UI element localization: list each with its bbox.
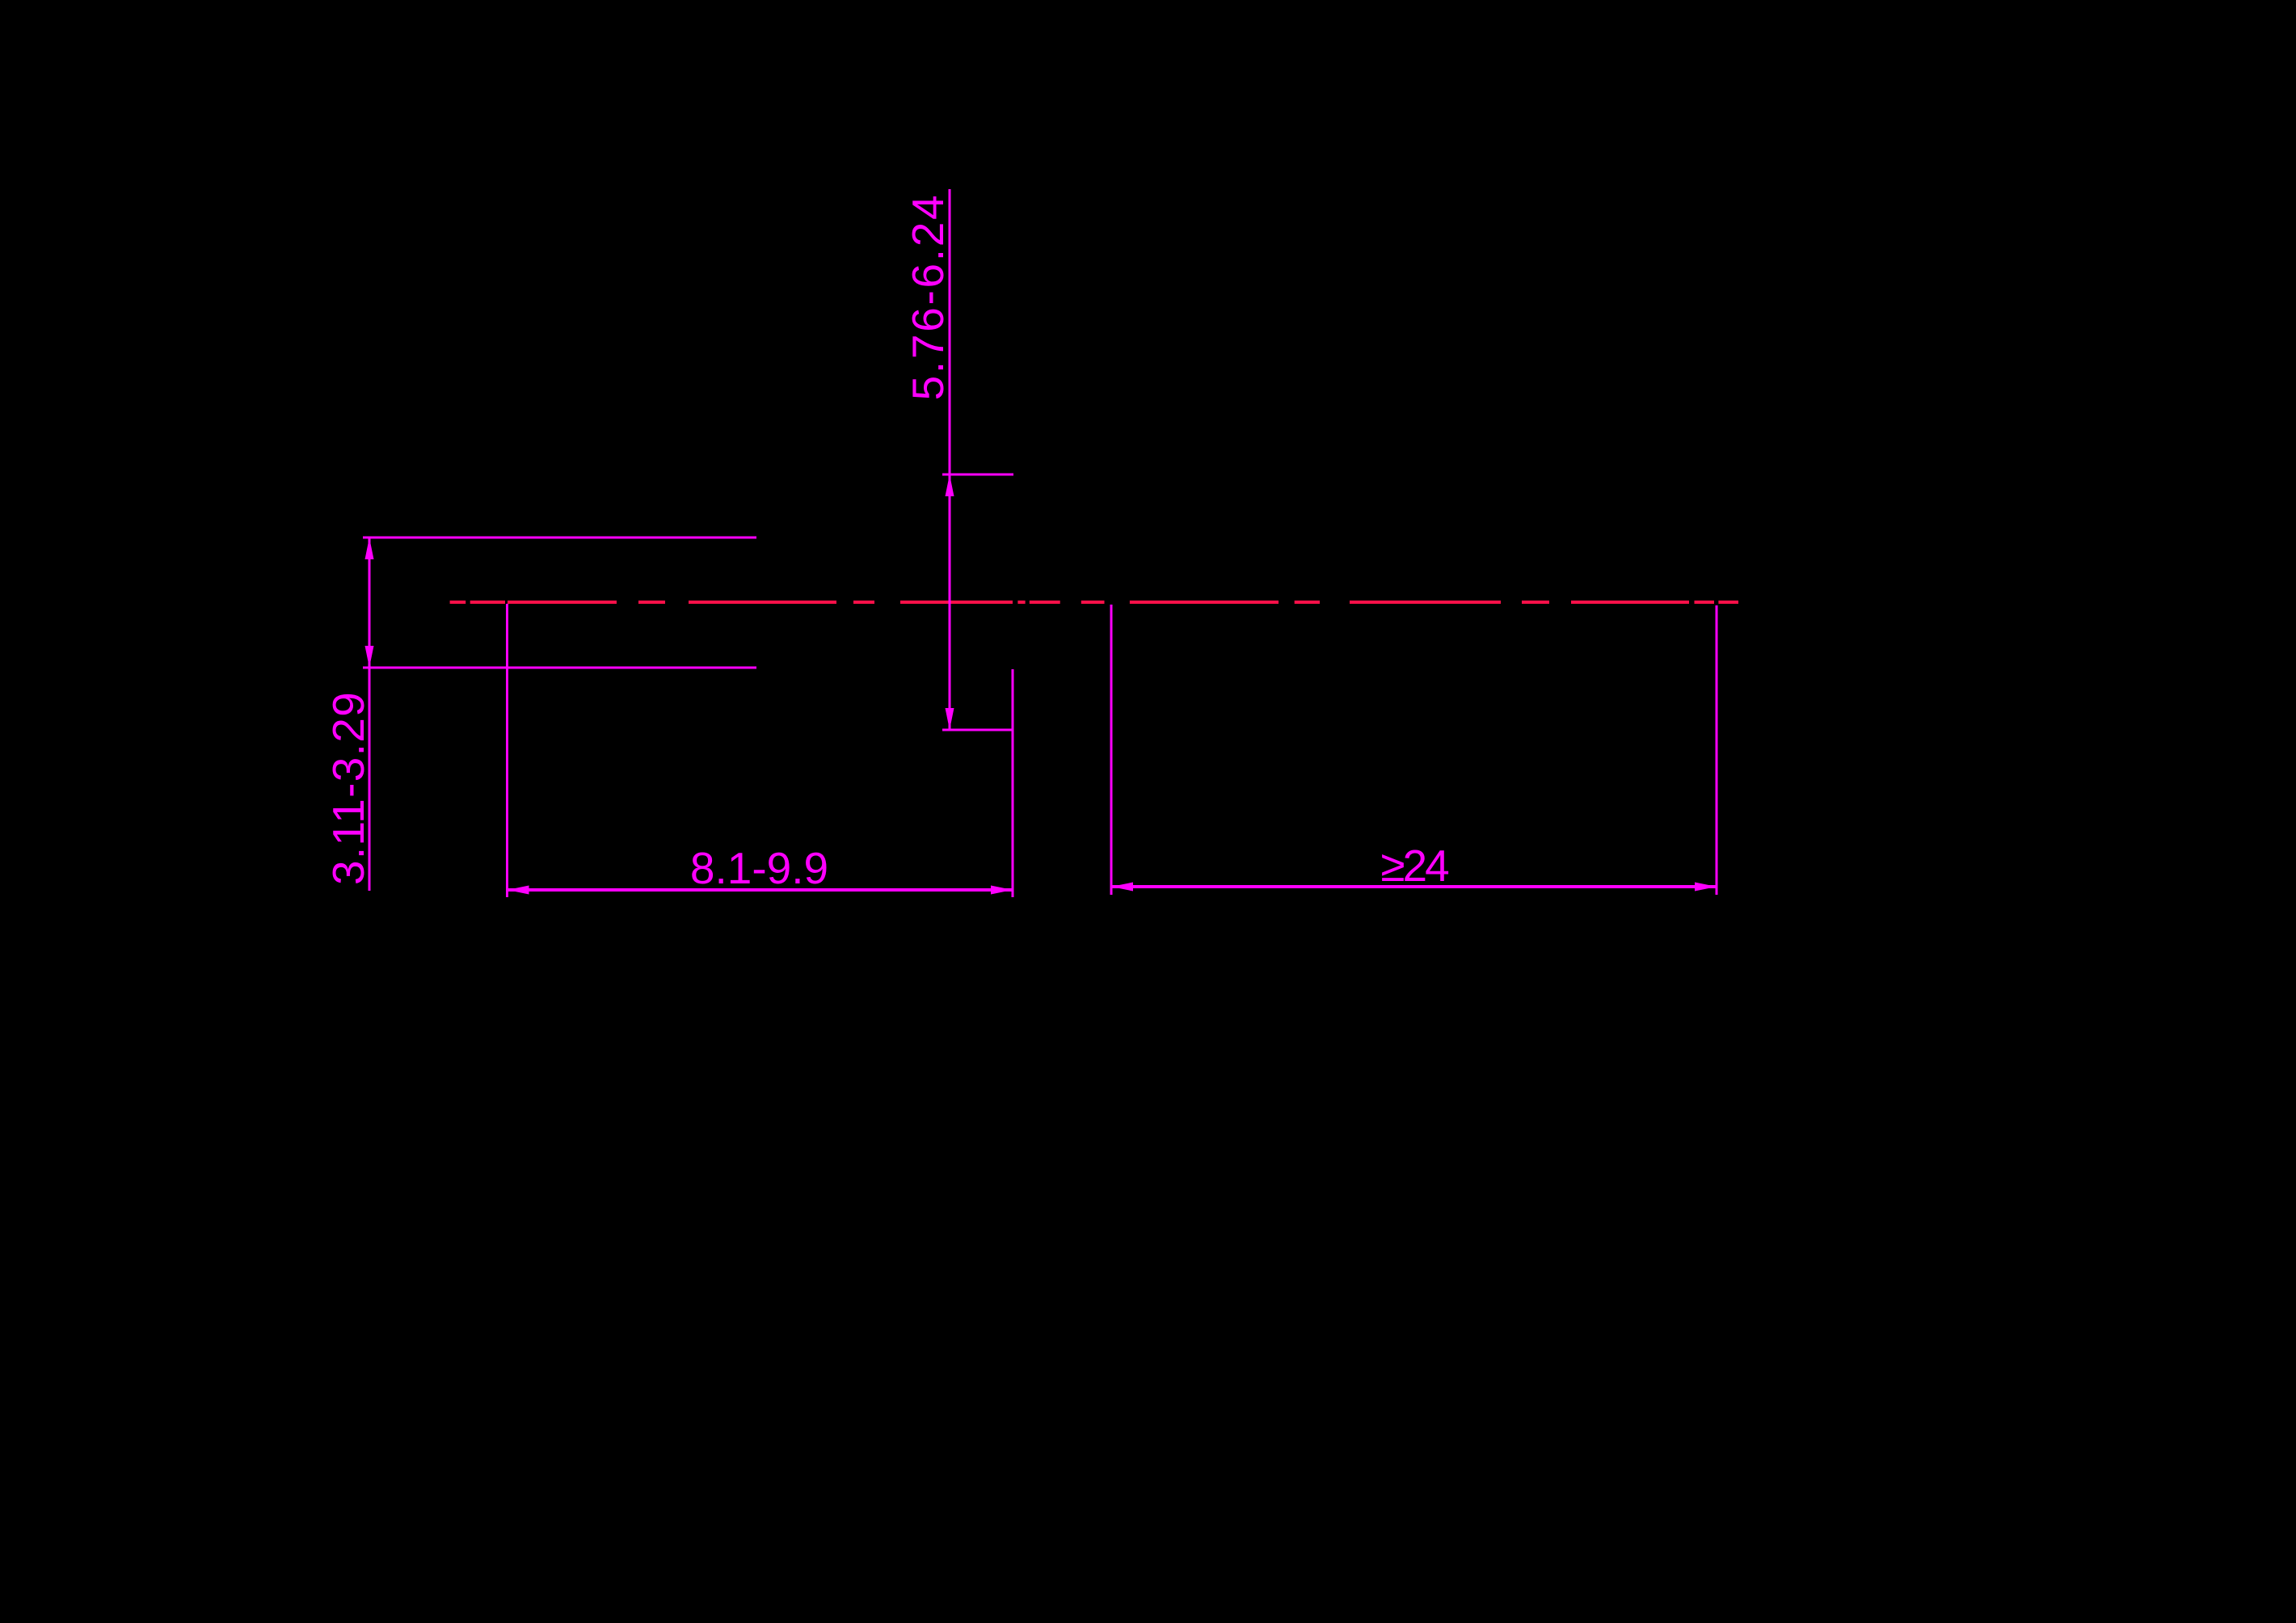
svg-text:3.11-3.29: 3.11-3.29 xyxy=(323,691,373,885)
svg-text:≥24: ≥24 xyxy=(1380,841,1448,891)
svg-text:5.76-6.24: 5.76-6.24 xyxy=(903,193,953,401)
svg-text:8.1-9.9: 8.1-9.9 xyxy=(690,843,828,893)
